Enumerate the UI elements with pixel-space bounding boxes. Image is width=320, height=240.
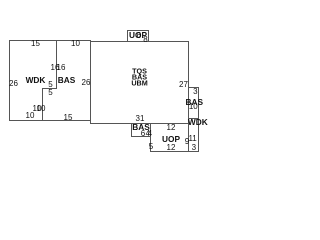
wire: right column divider bbox=[188, 118, 199, 119]
wire: right column top edge bbox=[188, 87, 199, 88]
wire: main box top edge bbox=[90, 41, 188, 42]
dimension 16 (BAS left) bbox=[57, 64, 66, 72]
wire: WDK/BAS divider upper vertical bbox=[56, 40, 57, 89]
dimension 6 (bottom BAS) bbox=[141, 130, 145, 138]
dimension 10 (BAS lower left) bbox=[37, 105, 46, 113]
label UBM (main) bbox=[131, 79, 147, 86]
wire: bottom BAS left edge bbox=[131, 123, 132, 137]
dimension 3 (column bottom) bbox=[192, 144, 196, 152]
label UOP (bottom) bbox=[162, 135, 180, 143]
label BAS (main) bbox=[132, 73, 147, 80]
dimension 10 (column) bbox=[189, 103, 198, 111]
dimension 10 (WDK lower right) bbox=[33, 105, 42, 113]
wire: left box bottom edge bbox=[9, 120, 91, 121]
wire: right column right edge bbox=[198, 87, 199, 152]
label UOP (top porch) bbox=[129, 31, 147, 39]
wire: main box bottom edge bbox=[90, 123, 189, 124]
dimension 4 (bottom BAS right a) bbox=[146, 130, 150, 138]
label BAS (bottom small box) bbox=[132, 123, 150, 131]
dimension 4 (bottom BAS right b) bbox=[148, 130, 152, 138]
dimension 5 (bottom UOP left) bbox=[149, 143, 153, 151]
label WDK (left) bbox=[26, 76, 46, 84]
dimension 5 (step upper) bbox=[48, 81, 52, 89]
wire: main box left edge bbox=[90, 41, 91, 124]
wire: top porch left edge bbox=[127, 30, 128, 41]
dimension 6 (over porch O) bbox=[137, 32, 141, 40]
wire: main box right edge + right extension down bbox=[188, 41, 189, 152]
dimension 15 (left box top) bbox=[31, 40, 40, 48]
dimension 12 (bottom UOP bottom) bbox=[167, 144, 176, 152]
dimension 26 (left side) bbox=[9, 80, 18, 88]
dimension 10 (left box bottom) bbox=[26, 112, 35, 120]
label BAS (column) bbox=[186, 98, 204, 106]
wire: WDK/BAS divider lower vertical bbox=[42, 88, 43, 121]
wire: left box left edge bbox=[9, 40, 10, 121]
dimension 15 (left box bottom) bbox=[64, 114, 73, 122]
wire: bottom UOP+WDK bottom edge bbox=[150, 151, 199, 152]
dimension 11 (column) bbox=[188, 135, 196, 143]
wire: left box top edge bbox=[9, 40, 91, 41]
label WDK (column) bbox=[188, 118, 208, 126]
wire: bottom BAS right edge bbox=[150, 123, 151, 137]
label BAS (left) bbox=[58, 76, 76, 84]
label TQS (main) bbox=[132, 68, 147, 75]
dimension 10 (left box top) bbox=[71, 40, 80, 48]
dimension 26 (right of left box) bbox=[82, 79, 91, 87]
dimension 16 (WDK right) bbox=[51, 64, 60, 72]
dimension 12 (bottom UOP top) bbox=[167, 124, 176, 132]
dimension 3 (column top) bbox=[193, 88, 197, 96]
wire: bottom BAS bottom edge bbox=[131, 136, 151, 137]
wire: WDK/BAS step horizontal bbox=[42, 88, 57, 89]
wire: top porch right edge bbox=[148, 30, 149, 41]
dimension 27 (main right) bbox=[179, 81, 188, 89]
dimension 9 (bottom UOP right) bbox=[185, 138, 189, 146]
dimension 31 (main bottom) bbox=[136, 115, 145, 123]
dimension 8 (porch right, below P) bbox=[143, 36, 147, 44]
dimension 5 (step lower) bbox=[48, 89, 52, 97]
wire: top porch top edge bbox=[127, 30, 149, 31]
wire: bottom UOP left edge bbox=[150, 123, 151, 152]
